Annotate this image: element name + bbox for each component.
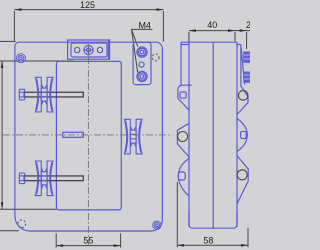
right tab arc <box>237 119 247 152</box>
left nut bulge <box>177 123 189 156</box>
125 arrows <box>14 8 21 11</box>
side view secondary terminal screw upper <box>244 52 251 62</box>
left tab arc <box>178 159 189 197</box>
primary clamp butterfly P3 (right middle) <box>124 119 142 154</box>
dim 2x <box>235 30 250 32</box>
svg-text:58: 58 <box>203 235 213 245</box>
central bar <box>63 132 84 137</box>
clamp nut side-right upper <box>238 91 248 101</box>
clamp nut side-right lower <box>237 170 247 180</box>
primary clamp butterfly P1 (upper left) <box>35 77 53 112</box>
right nut bulge 2 <box>237 156 248 205</box>
clamp rod P2 <box>24 176 83 181</box>
primary clamp butterfly P2 (lower left) <box>35 161 53 196</box>
BR screw <box>153 221 161 229</box>
dim 58 <box>177 244 248 246</box>
top cap <box>181 41 237 43</box>
dim 55 <box>56 245 120 247</box>
secondary terminal block <box>133 42 151 84</box>
dashed seal circle bottom-left <box>18 220 26 228</box>
bracket hole crosshair <box>88 45 90 56</box>
55 arrows <box>56 244 63 247</box>
ext lines 125 <box>13 11 15 42</box>
arrows <box>1 8 248 247</box>
M4 leader <box>132 28 153 30</box>
window <box>56 61 121 210</box>
bracket <box>68 40 110 59</box>
clamp nut side-left <box>178 132 188 142</box>
58 arrows <box>177 244 184 247</box>
vertical centerline front view <box>87 44 89 248</box>
dim 40 <box>189 30 235 32</box>
clamp screw head P2 <box>19 173 24 184</box>
clamp rod P1 <box>24 92 83 97</box>
40 arrows <box>189 29 196 32</box>
TL screw <box>17 54 26 63</box>
svg-text:125: 125 <box>80 0 95 10</box>
left bump 1 with hole <box>178 85 192 110</box>
side view secondary terminal screw lower <box>244 72 251 82</box>
svg-text:40: 40 <box>207 20 217 30</box>
height dim line left <box>1 61 3 209</box>
height arrows <box>1 61 4 68</box>
dashed seal circle top-right <box>152 54 159 61</box>
outer body <box>15 42 163 231</box>
svg-text:M4: M4 <box>138 20 151 30</box>
gray feature/ext lines left <box>0 40 16 42</box>
right bulge 1 (nut) <box>237 86 248 115</box>
bottom feet <box>189 212 237 228</box>
clamp screw head P1 <box>19 89 24 100</box>
svg-text:25: 25 <box>246 20 250 30</box>
horizontal centerline front view <box>3 134 173 136</box>
dim 125 top: line <box>14 9 163 11</box>
2x arrow <box>240 29 247 32</box>
